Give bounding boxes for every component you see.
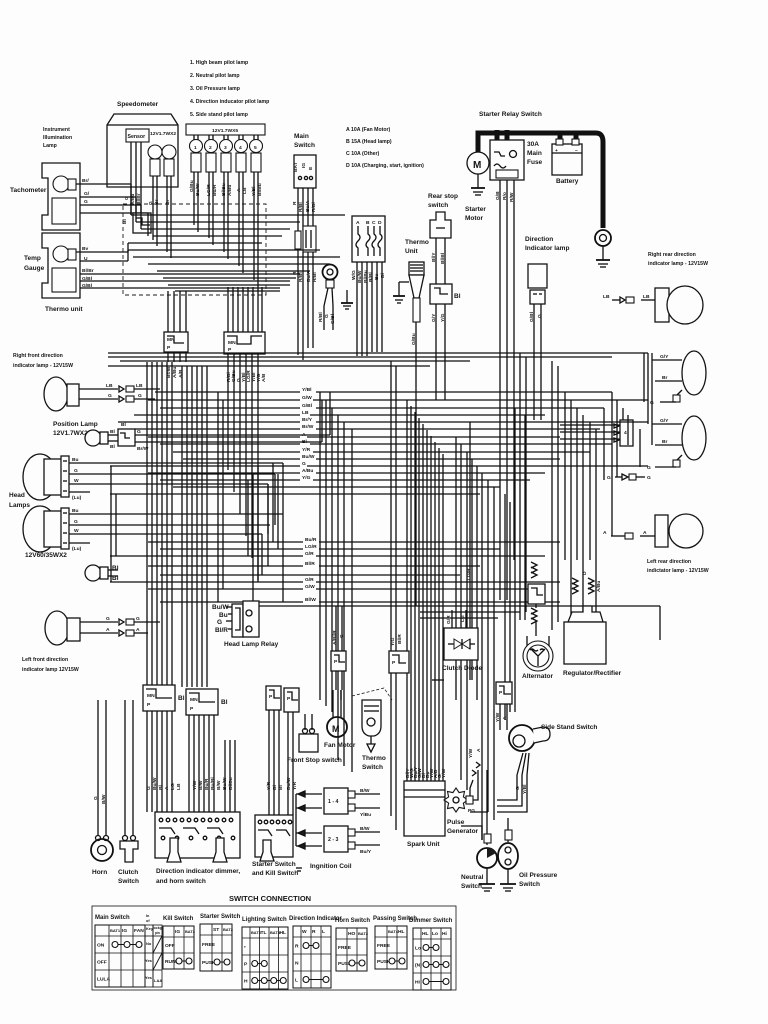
- svg-text:ON: ON: [97, 943, 105, 949]
- main switch body: [294, 155, 316, 188]
- direction indicator wires down: [533, 304, 535, 420]
- svg-text:Bu: Bu: [72, 508, 79, 514]
- svg-text:Yes: Yes: [145, 975, 153, 980]
- svg-text:Right front direction: Right front direction: [13, 353, 63, 359]
- svg-text:indictator lamp - 12V15W: indictator lamp - 12V15W: [647, 568, 709, 574]
- svg-text:Y/G: Y/G: [440, 313, 446, 322]
- svg-text:Lo: Lo: [432, 931, 438, 937]
- position lamp feed wires: [160, 434, 330, 436]
- head lamp relay: [232, 604, 243, 637]
- svg-text:A: A: [106, 627, 110, 633]
- svg-text:A/Bu: A/Bu: [172, 367, 178, 378]
- svg-text:Bl: Bl: [121, 422, 127, 428]
- svg-text:HL: HL: [280, 930, 287, 936]
- svg-text:of: of: [146, 919, 150, 923]
- svg-text:Lo: Lo: [415, 946, 421, 952]
- svg-text:Bu/W: Bu/W: [357, 270, 363, 283]
- svg-text:Y/W: Y/W: [495, 712, 501, 722]
- svg-text:(Lu): (Lu): [72, 546, 82, 552]
- svg-text:G: G: [137, 429, 141, 435]
- SECTION: rightlamps: [603, 252, 709, 574]
- svg-text:Bu: Bu: [374, 273, 380, 280]
- svg-text:Br/: Br/: [82, 178, 89, 184]
- dimmer slider knob 2: [213, 838, 227, 862]
- headlamp 2: [23, 506, 57, 552]
- svg-text:Bl/R: Bl/R: [397, 634, 403, 644]
- svg-text:W: W: [74, 478, 79, 484]
- svg-text:1. High beam pilot lamp: 1. High beam pilot lamp: [190, 60, 248, 66]
- harness vertical bundle left: [147, 352, 258, 687]
- svg-text:Bl: Bl: [380, 272, 386, 278]
- tail lamp 1 wires: [652, 359, 682, 361]
- temp gauge meter: [52, 268, 76, 292]
- svg-text:R/Bl: R/Bl: [312, 272, 318, 282]
- ground thermo unit: [399, 281, 409, 283]
- svg-text:Clutch: Clutch: [118, 869, 138, 876]
- svg-text:Y/R: Y/R: [266, 781, 272, 790]
- svg-text:R/W: R/W: [509, 192, 515, 202]
- ground oil pressure switch: [507, 869, 509, 884]
- thermo switch dashed link: [352, 688, 392, 700]
- svg-text:FREE: FREE: [202, 942, 216, 948]
- svg-text:Neutral: Neutral: [461, 874, 484, 881]
- svg-text:Regulator/Rectifier: Regulator/Rectifier: [563, 670, 622, 677]
- svg-text:FAN: FAN: [134, 928, 144, 934]
- G diamond connector: [615, 476, 622, 478]
- svg-text:Bu/R: Bu/R: [212, 184, 218, 196]
- pilot bulb 3: [220, 140, 233, 153]
- ignition coil 1-4: [324, 788, 348, 814]
- pulse generator wires: [473, 770, 478, 800]
- instrument connector B: [224, 332, 265, 354]
- 4-way connector: [620, 420, 633, 446]
- main switch wires down: [297, 188, 299, 231]
- svg-text:+: +: [555, 149, 558, 154]
- svg-text:L: L: [295, 978, 298, 984]
- spark unit harness verticals: [407, 400, 443, 781]
- svg-text:Y/R: Y/R: [302, 447, 311, 453]
- horn: [91, 839, 113, 861]
- svg-text:Head: Head: [9, 492, 25, 499]
- relay wires down: [499, 180, 501, 600]
- svg-text:indicator lamp - 12V15W: indicator lamp - 12V15W: [648, 261, 708, 267]
- svg-text:Y/W: Y/W: [192, 780, 198, 790]
- svg-text:B/W: B/W: [360, 826, 370, 832]
- svg-text:Switch: Switch: [294, 142, 315, 149]
- svg-text:A 10A (Fan Motor): A 10A (Fan Motor): [346, 127, 391, 133]
- distribution wires lower: [148, 541, 560, 543]
- dashed harness boundary: [123, 204, 266, 295]
- ignition coil arrows: [296, 791, 322, 849]
- right mid density wires: [420, 611, 520, 613]
- svg-text:Y/G: Y/G: [302, 475, 311, 481]
- svg-text:Horn: Horn: [92, 869, 107, 876]
- svg-text:A/Bu: A/Bu: [302, 468, 313, 474]
- svg-text:LB: LB: [603, 294, 610, 300]
- right handlebar connector 1: [266, 686, 281, 710]
- battery thick cable: [478, 133, 603, 228]
- svg-text:OFF: OFF: [97, 960, 107, 966]
- svg-text:5: 5: [254, 145, 257, 151]
- SECTION: mesh: [108, 184, 660, 840]
- table Kill Switch: [163, 916, 196, 969]
- svg-text:Bl/Bu: Bl/Bu: [228, 777, 234, 790]
- svg-text:Bu/W: Bu/W: [302, 454, 315, 460]
- svg-text:Kill Switch: Kill Switch: [163, 916, 194, 922]
- svg-text:Switch: Switch: [461, 883, 482, 890]
- svg-text:HL: HL: [422, 931, 429, 937]
- svg-text:G: G: [106, 616, 110, 622]
- dimmer slider knob 1: [167, 838, 181, 862]
- svg-text:HO: HO: [348, 931, 356, 937]
- pilot bulb 4: [235, 140, 248, 153]
- svg-text:Bu/W: Bu/W: [222, 777, 228, 790]
- svg-text:ST: ST: [213, 927, 219, 933]
- svg-text:A: A: [476, 748, 482, 752]
- svg-text:MN: MN: [167, 337, 175, 343]
- svg-text:G: G: [217, 619, 222, 626]
- svg-text:Lamps: Lamps: [9, 502, 30, 509]
- starter motor M: [467, 152, 489, 174]
- starter switch and kill switch: [255, 815, 293, 857]
- svg-text:G/R: G/R: [305, 551, 314, 557]
- svg-text:Generator: Generator: [447, 828, 479, 835]
- main switch inline fuse: [295, 231, 301, 249]
- svg-text:12V1.7WX5: 12V1.7WX5: [212, 128, 238, 134]
- svg-text:A/Bu: A/Bu: [596, 581, 602, 592]
- svg-text:Speedometer: Speedometer: [117, 101, 159, 108]
- svg-text:No: No: [146, 941, 152, 946]
- svg-text:Bu/A: Bu/A: [306, 270, 312, 282]
- ground starter motor: [477, 174, 479, 188]
- clutch switch wires: [124, 808, 126, 836]
- ignition coil 2-3: [324, 826, 348, 852]
- svg-text:R: R: [312, 929, 316, 935]
- svg-text:OFF: OFF: [165, 943, 175, 949]
- handlebar connector block 1: [143, 685, 175, 711]
- SECTION: pilots: [186, 60, 269, 287]
- relay terminal stubs: [495, 130, 500, 146]
- ignition coil leads: [355, 793, 380, 795]
- svg-text:Thermo: Thermo: [405, 239, 429, 246]
- svg-text:Bu: Bu: [72, 457, 79, 463]
- svg-text:LG/R: LG/R: [466, 568, 472, 580]
- svg-text:G: G: [74, 468, 78, 474]
- svg-text:G/R: G/R: [446, 615, 452, 624]
- svg-text:(Lu): (Lu): [72, 495, 82, 501]
- svg-text:Oil Pressure: Oil Pressure: [519, 872, 558, 879]
- svg-text:D 10A (Charging, start, igni: D 10A (Charging, start, ignition): [346, 163, 424, 169]
- clutch diode: [444, 628, 478, 660]
- main horizontal trunk: [108, 353, 648, 366]
- svg-text:G/W: G/W: [302, 395, 312, 401]
- svg-text:Bu/Y: Bu/Y: [360, 849, 372, 855]
- svg-text:G: G: [108, 393, 112, 399]
- svg-text:LG: LG: [460, 615, 466, 622]
- svg-text:HL: HL: [398, 929, 405, 935]
- instrument connector A: [164, 332, 188, 352]
- svg-text:G/Bu: G/Bu: [411, 333, 417, 345]
- fan motor wires: [332, 690, 334, 717]
- clutch diode leads: [451, 610, 453, 628]
- svg-text:A: A: [603, 530, 607, 536]
- svg-text:30A: 30A: [527, 141, 539, 148]
- svg-text:Bl: Bl: [112, 565, 119, 572]
- ground battery: [602, 246, 604, 260]
- svg-text:Sensor: Sensor: [128, 134, 146, 140]
- svg-text:MN: MN: [228, 340, 236, 346]
- svg-text:LG: LG: [170, 783, 176, 790]
- direction indicator dimmer and horn switch: [155, 812, 240, 858]
- svg-text:Bl: Bl: [278, 784, 284, 790]
- svg-text:B: B: [366, 220, 370, 226]
- svg-text:LB: LB: [302, 410, 309, 416]
- svg-text:G/Bl: G/Bl: [82, 283, 93, 289]
- svg-text:Switch: Switch: [118, 878, 139, 885]
- svg-text:Bl: Bl: [110, 429, 116, 435]
- svg-text:Hi: Hi: [442, 931, 448, 937]
- svg-text:5. Side stand pilot lamp: 5. Side stand pilot lamp: [190, 112, 248, 118]
- horn wires: [97, 808, 99, 836]
- oil pressure switch wire: [507, 818, 509, 842]
- svg-text:Bl/Br: Bl/Br: [82, 268, 94, 274]
- table Passing Switch: [373, 916, 417, 969]
- temp gauge body: [42, 233, 80, 298]
- svg-text:C 10A (Other): C 10A (Other): [346, 151, 380, 157]
- svg-text:W: W: [302, 929, 307, 935]
- svg-text:Bl: Bl: [454, 293, 461, 300]
- svg-text:Bl: Bl: [110, 444, 116, 450]
- pilot bulb wires down: [193, 172, 195, 225]
- svg-text:Switch: Switch: [519, 881, 540, 888]
- svg-text:N: N: [295, 961, 299, 967]
- front stop switch: [304, 714, 306, 730]
- svg-text:MN: MN: [190, 697, 198, 703]
- rear stop wires down: [435, 304, 437, 400]
- wires below fuse: [297, 249, 299, 355]
- svg-text:D: D: [582, 571, 588, 575]
- svg-text:G: G: [515, 786, 521, 790]
- svg-text:Direction indicator dimmer,: Direction indicator dimmer,: [156, 868, 240, 875]
- svg-text:indicator lamp - 12V15W: indicator lamp - 12V15W: [13, 363, 73, 369]
- pilot bulb 2: [205, 140, 218, 153]
- svg-text:Left front direction: Left front direction: [22, 657, 68, 663]
- svg-text:Br/Y: Br/Y: [302, 417, 313, 423]
- svg-text:G: G: [93, 796, 99, 800]
- svg-text:IG: IG: [301, 163, 307, 168]
- table Dimmer Switch: [409, 918, 453, 990]
- svg-text:A/Bu: A/Bu: [227, 185, 233, 196]
- svg-text:G/Y: G/Y: [660, 418, 669, 424]
- headlamp 1 wires: [69, 462, 110, 464]
- svg-text:Thermo unit: Thermo unit: [45, 306, 83, 313]
- svg-text:G: G: [136, 616, 140, 622]
- svg-text:2: 2: [209, 145, 212, 151]
- pilot bulb 5: [250, 140, 263, 153]
- alternator chevrons upper: [531, 562, 537, 578]
- svg-text:B/W: B/W: [360, 788, 370, 794]
- svg-text:1: 1: [194, 145, 197, 151]
- rear stop BI connector: [430, 284, 452, 304]
- table Lighting Switch: [242, 917, 288, 989]
- switch connection outer frame: [92, 906, 456, 990]
- svg-text:Switch: Switch: [362, 764, 383, 771]
- distribution wires mid: [155, 391, 612, 393]
- svg-text:G/B: G/B: [495, 191, 501, 200]
- svg-text:12V1.7WX2: 12V1.7WX2: [53, 430, 88, 437]
- svg-text:G/Bu: G/Bu: [189, 180, 195, 192]
- svg-text:Bl/R: Bl/R: [215, 627, 228, 634]
- svg-text:3: 3: [224, 145, 227, 151]
- ground neutral switch: [486, 868, 488, 884]
- SECTION: bottomright: [404, 562, 622, 891]
- right handlebar connector 2: [284, 688, 299, 712]
- svg-text:Tachometer: Tachometer: [10, 187, 47, 194]
- svg-text:A: A: [164, 786, 170, 790]
- svg-text:SWITCH CONNECTION: SWITCH CONNECTION: [229, 894, 311, 903]
- mid connector P1: [331, 651, 346, 671]
- svg-text:Starter Switch: Starter Switch: [200, 914, 241, 920]
- temp gauge wires: [76, 251, 128, 253]
- svg-text:Bl/Bu: Bl/Bu: [257, 183, 263, 196]
- svg-text:G/Bl: G/Bl: [82, 276, 93, 282]
- svg-text:Y/W: Y/W: [441, 768, 447, 778]
- SECTION: bottomleft: [91, 601, 409, 885]
- svg-text:1 - 4: 1 - 4: [328, 799, 338, 805]
- lamp connector LB: [641, 299, 655, 301]
- svg-text:R: R: [295, 944, 299, 950]
- right front direction indicator lamp: [44, 377, 68, 411]
- svg-text:Right rear direction: Right rear direction: [648, 252, 696, 258]
- svg-text:B/W: B/W: [216, 780, 222, 790]
- svg-text:G: G: [537, 314, 543, 318]
- svg-text:G: G: [607, 475, 611, 481]
- position lamp bulb: [85, 430, 101, 446]
- svg-text:BAT: BAT: [293, 162, 299, 172]
- svg-text:Spark Unit: Spark Unit: [407, 841, 440, 848]
- svg-text:M: M: [473, 160, 481, 171]
- svg-text:R/o: R/o: [502, 192, 508, 200]
- tachometer wires: [76, 183, 131, 185]
- table Horn Switch: [335, 918, 370, 971]
- side stand wire bends: [497, 775, 517, 800]
- svg-text:Fan Motor: Fan Motor: [324, 742, 356, 749]
- svg-text:Bl/R: Bl/R: [305, 561, 315, 567]
- svg-text:Instrument: Instrument: [43, 127, 70, 133]
- svg-text:4: 4: [624, 430, 627, 436]
- svg-text:Yes: Yes: [145, 958, 153, 963]
- svg-text:Motor: Motor: [465, 215, 484, 222]
- speedometer bulb 2: [162, 145, 176, 159]
- svg-text:G/Y: G/Y: [660, 354, 669, 360]
- alternator: [526, 636, 528, 648]
- wires from connector blocks to switches: [147, 710, 293, 815]
- left rear direction indicator lamp: [655, 515, 668, 547]
- svg-text:Position Lamp: Position Lamp: [53, 421, 98, 428]
- svg-text:Bl: Bl: [158, 784, 164, 790]
- small bulb Bl/Bl: [85, 565, 101, 581]
- wires to 4-way connector: [560, 424, 620, 426]
- speedometer body: [107, 114, 178, 187]
- svg-text:Head Lamp Relay: Head Lamp Relay: [224, 641, 279, 648]
- svg-text:Bl/Bu: Bl/Bu: [221, 183, 227, 196]
- lamp wires G/A: [80, 621, 118, 623]
- svg-text:Y/Bl: Y/Bl: [251, 186, 257, 196]
- svg-text:Bu/R: Bu/R: [204, 778, 210, 790]
- svg-text:LB: LB: [136, 383, 143, 389]
- svg-text:G: G: [647, 475, 651, 481]
- svg-text:LB: LB: [242, 187, 248, 194]
- svg-text:A: A: [643, 530, 647, 536]
- thermo unit body: [409, 262, 424, 275]
- svg-text:YlBu: YlBu: [360, 812, 371, 818]
- svg-text:Main: Main: [527, 150, 542, 157]
- svg-text:BAT2: BAT2: [223, 927, 234, 932]
- svg-text:G: G: [324, 314, 330, 318]
- svg-text:Starter: Starter: [465, 206, 486, 213]
- svg-text:•: •: [244, 946, 246, 951]
- tail lamp 2: [682, 416, 706, 460]
- thermo unit wire down: [415, 322, 417, 606]
- svg-text:R/Bl: R/Bl: [311, 202, 317, 212]
- svg-text:B/W: B/W: [101, 794, 107, 804]
- svg-text:Main: Main: [294, 133, 309, 140]
- pilot lamp connector 12V1.7WX5: [186, 124, 265, 135]
- side stand wires: [517, 753, 523, 775]
- svg-text:2 - 3: 2 - 3: [328, 837, 338, 843]
- svg-text:Y/Bl: Y/Bl: [302, 387, 312, 393]
- svg-text:IG: IG: [122, 928, 127, 934]
- svg-text:LB: LB: [176, 783, 182, 790]
- handlebar connector block 2: [186, 689, 218, 715]
- svg-text:Bu: Bu: [219, 612, 228, 619]
- svg-text:G: G: [138, 393, 142, 399]
- sensor box: [126, 129, 149, 142]
- SECTION: starter: [465, 111, 611, 600]
- svg-text:G/Y: G/Y: [431, 313, 437, 322]
- svg-text:Y/W: Y/W: [468, 748, 474, 758]
- SECTION: midcomponents: [393, 193, 569, 606]
- svg-text:Bu/W: Bu/W: [286, 777, 292, 790]
- svg-text:pin: pin: [155, 931, 160, 935]
- table Main Switch: [95, 914, 162, 987]
- neutral switch wire: [486, 770, 488, 845]
- left front direction indicator lamp: [45, 611, 69, 645]
- svg-text:Br: Br: [662, 439, 668, 445]
- svg-text:B 15A (Head lamp): B 15A (Head lamp): [346, 139, 392, 145]
- svg-text:MN: MN: [147, 693, 155, 699]
- svg-text:Clutch Diode: Clutch Diode: [442, 665, 482, 672]
- svg-text:G: G: [84, 199, 88, 205]
- svg-text:A: A: [236, 188, 242, 192]
- svg-text:Left rear direction: Left rear direction: [647, 559, 691, 565]
- svg-text:Dimmer Switch: Dimmer Switch: [409, 918, 453, 924]
- tachometer body: [42, 163, 80, 230]
- svg-text:Starter Switch: Starter Switch: [252, 861, 296, 868]
- starter relay box: [490, 140, 524, 180]
- pilot bulb 1: [190, 140, 203, 153]
- table Starter Switch: [200, 914, 241, 971]
- svg-text:Thermo: Thermo: [362, 755, 386, 762]
- table Direction Indicator: [289, 916, 343, 988]
- lamp connector A: [640, 535, 655, 537]
- svg-text:Indicator lamp: Indicator lamp: [525, 245, 569, 252]
- ground main harness: [346, 290, 348, 303]
- svg-text:G/: G/: [84, 191, 90, 197]
- mid connector P2: [389, 651, 409, 673]
- svg-text:R/Bl: R/Bl: [298, 202, 304, 212]
- svg-text:Hi: Hi: [415, 980, 421, 986]
